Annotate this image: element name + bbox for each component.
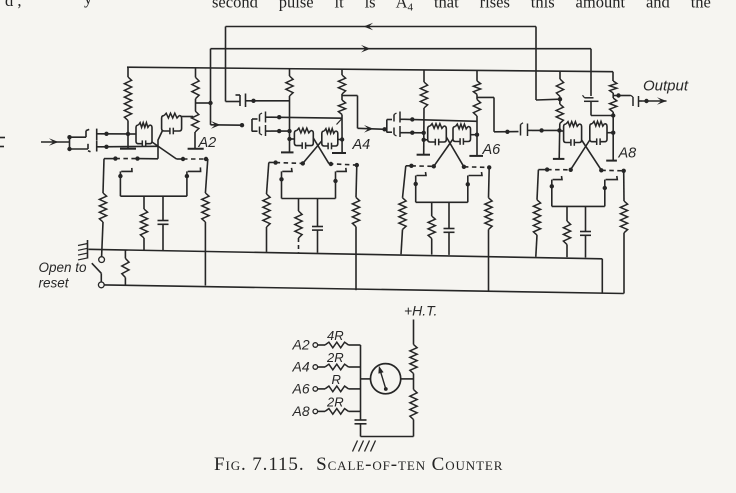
junction: A2 right grid dash end <box>204 157 208 161</box>
wire: A8 cross-couple left-box to right grid <box>582 140 602 170</box>
triode anode bar: A8 right <box>606 160 617 162</box>
capacitor: input steering bottom <box>88 141 101 152</box>
svg-text:d ,: d , <box>5 0 22 10</box>
wire: rail2 cap to A8 right anode <box>591 115 613 117</box>
junction: A8 right cathode <box>603 186 607 190</box>
svg-text:A2: A2 <box>292 337 310 353</box>
wire: A8 left anode lead <box>558 123 561 158</box>
junction: input split bottom <box>67 147 71 151</box>
junction: A4 right cathode <box>333 179 337 183</box>
capacitor: A6 steering bottom <box>387 126 405 137</box>
label: A2 <box>198 135 217 151</box>
junction: rail2 cap output <box>611 113 615 117</box>
svg-text:4R: 4R <box>327 328 344 343</box>
wire: A8 left box stub <box>559 130 563 132</box>
junction: A6 left box stub <box>422 138 426 142</box>
junction: A4 left anode / bottom steering <box>287 129 291 133</box>
svg-text:A8: A8 <box>618 146 637 162</box>
terminal: meter input A4 <box>313 365 318 370</box>
junction: input bottom cap output <box>104 145 108 149</box>
junction: A4 input <box>240 123 244 127</box>
junction: A2 tap on feedback drop <box>208 101 212 105</box>
junction: A4 steering bottom <box>277 129 281 133</box>
grid line: A4 right triode <box>329 164 357 165</box>
cathode: A4 left triode <box>282 168 293 199</box>
junction: A6 left grid dash start <box>409 164 413 168</box>
wire: A4 left box stub <box>290 138 295 140</box>
junction: A6 left grid dash end <box>432 164 436 168</box>
wire: input top cap to A2 left anode <box>101 133 128 135</box>
junction: A4 left grid dash end <box>301 161 305 165</box>
switch: blade <box>92 263 102 273</box>
resistor: A2 left grid leak <box>99 159 106 257</box>
wire: A2 cross-couple right-box to left grid <box>158 131 163 159</box>
coupling box: A2 left RC (R parallel C) <box>136 123 152 147</box>
wire: rail A right end drop to rail B <box>601 259 603 293</box>
junction: A2 right grid dash start <box>181 157 185 161</box>
wire: A4 right anode lead <box>341 115 343 154</box>
wire: A4 cathode bus <box>282 198 336 200</box>
resistor: A6 left grid leak <box>399 166 406 255</box>
cathode: A8 right triode <box>605 176 618 206</box>
svg-text:Fig. 7.115. Scale-of-ten Count: Fig. 7.115. Scale-of-ten Counter <box>214 454 503 475</box>
wire: feedback rail2 left drop <box>210 49 212 125</box>
resistor: A2 cathode bias <box>140 196 147 250</box>
cathode: A6 left triode <box>416 172 426 202</box>
grid line: A6 left triode <box>406 165 434 168</box>
resistor: A8 right grid leak <box>620 171 627 294</box>
resistor: meter series lower <box>410 390 417 437</box>
svg-text:Open to: Open to <box>39 260 88 275</box>
wire: cap to A8 left anode <box>532 129 559 131</box>
wire: A6 cathode bus <box>416 201 468 203</box>
svg-text:A6: A6 <box>482 142 502 158</box>
wire: summing bus <box>360 345 362 420</box>
wire: A8 right anode lead <box>612 112 614 161</box>
wire: A2 cross-couple left-box to right grid <box>152 142 177 159</box>
junction: A4 left box stub <box>287 137 291 141</box>
wire: A8 cathode bus <box>552 205 605 207</box>
cathode: A2 left triode <box>120 168 132 196</box>
wire: input top branch <box>70 136 87 138</box>
junction: A4 right box stub <box>340 137 344 141</box>
wire: grid-bias rail (rail B) <box>105 285 624 294</box>
text: cropped body text at top <box>5 0 711 14</box>
junction: A4 right grid dash end <box>355 163 359 167</box>
junction: A6 right grid dash end <box>487 165 491 169</box>
triode anode bar: A6 left <box>417 154 430 156</box>
capacitor: A8 cathode bypass <box>580 206 591 257</box>
grid line: A6 right triode <box>464 166 489 169</box>
junction: A4 right grid dash start <box>329 162 333 166</box>
arrowhead on feedback rail 1 (left) <box>364 23 374 31</box>
wire: A6 cross-couple right-box to left grid <box>434 139 453 166</box>
mark: page-edge artifact <box>0 138 5 147</box>
wire: A4-A6 coupling with arrow <box>358 125 385 133</box>
junction: A6 right cathode <box>466 182 470 186</box>
capacitor: feedback rail2 to A8 right anode <box>583 95 599 115</box>
switch: lower contact <box>98 282 104 288</box>
wire: feedback rail1 right drop <box>535 27 537 101</box>
triode anode bar: A4 left <box>281 151 294 153</box>
junction: input split top <box>67 135 71 139</box>
coupling box: A4 right RC <box>322 129 338 150</box>
label: meter input A6 <box>292 381 310 397</box>
svg-text:A8: A8 <box>292 403 310 419</box>
coupling box: A6 right RC <box>453 124 471 145</box>
resistor: A4 right grid leak <box>352 165 359 290</box>
resistor: A2 right anode load lower <box>192 111 199 132</box>
wire: output lead with arrow <box>642 97 667 105</box>
wire: A6 steering bottom output to left anode <box>405 132 424 134</box>
wire: A8 right box stub <box>607 132 613 134</box>
svg-text:y: y <box>84 0 93 8</box>
svg-text:second pulse it is A4 that ris: second pulse it is A4 that rises this am… <box>212 0 711 14</box>
wire: A2 right anode lead <box>194 132 196 149</box>
junction: input top cap output <box>104 132 108 136</box>
resistor: A4 left grid leak <box>263 162 270 252</box>
label: 2R (A8) <box>326 395 344 410</box>
svg-text:A6: A6 <box>292 381 310 397</box>
wire: A8 cross-couple right-box to left grid <box>571 140 590 170</box>
svg-text:reset: reset <box>39 276 70 291</box>
junction: A8 left tap <box>558 97 562 101</box>
resistor: A4 left anode load <box>286 69 293 96</box>
resistor: A8 right anode load lower <box>610 98 617 112</box>
resistor: meter series upper <box>410 345 417 390</box>
resistor: A8 cathode bias <box>563 206 570 257</box>
resistor: 2R summing (A8) <box>318 409 361 415</box>
capacitor: A6 steering top <box>387 112 405 123</box>
coupling box: A4 left RC <box>294 128 313 149</box>
capacitor: output coupling <box>628 95 642 107</box>
capacitor: input steering top <box>86 129 101 141</box>
coupling box: A8 right RC <box>590 121 607 145</box>
ground: meter circuit <box>353 441 376 452</box>
wire: A6 right tap stub <box>477 94 494 99</box>
wire: HT lead <box>413 320 415 345</box>
meter M1 <box>371 364 401 394</box>
wire: A8 right tap segment <box>612 93 614 98</box>
wire: A6 input spur <box>386 120 388 133</box>
coupling box: A2 right RC (R parallel C) <box>162 113 182 134</box>
label: A6 <box>482 142 502 158</box>
resistor: A2 left anode load <box>124 67 131 120</box>
coupling box: A6 left RC <box>428 124 447 146</box>
junction: A8 left grid dash end <box>569 168 573 172</box>
label: A8 <box>618 146 637 162</box>
wire: A6-A8 coupling horizontal <box>494 131 519 133</box>
wire: A6-A8 coupling drop <box>493 97 495 131</box>
resistor: A2 right anode load upper <box>192 68 199 99</box>
svg-text:2R: 2R <box>326 350 344 365</box>
junction: A6 left cathode <box>414 182 418 186</box>
resistor: A6 right anode load upper <box>473 70 480 94</box>
junction: A8 right grid dash start <box>599 168 603 172</box>
junction: A6 steering bottom <box>410 131 414 135</box>
junction: A2 left anode / input <box>126 132 130 136</box>
wire: meter bottom <box>361 436 414 438</box>
svg-text:A4: A4 <box>292 359 310 375</box>
ground: left chassis ground at rail A <box>78 240 88 260</box>
junction: A6-A8 cap output <box>539 128 543 132</box>
triode anode bar: A6 right <box>469 155 483 157</box>
capacitor: A6-A8 coupling <box>521 123 533 136</box>
junction: A6 right grid dash start <box>462 165 466 169</box>
wire: A4 left anode lead <box>289 96 291 152</box>
resistor: R summing <box>318 386 361 392</box>
capacitor: A4 steering top <box>252 112 271 123</box>
wire: rail1 to A8 left tap <box>536 98 560 101</box>
capacitor: feedback rail1 to A4 left anode <box>226 94 250 108</box>
junction: A8 right grid dash end <box>622 169 626 173</box>
capacitor: A4 steering bottom <box>252 125 271 136</box>
wire: A2 right box to right anode <box>182 116 194 118</box>
triode anode bar: A2 left <box>120 148 136 150</box>
wire: A4 right tap stub <box>342 94 358 100</box>
svg-text:A4: A4 <box>352 137 371 153</box>
wire: A4 steering bottom output to left anode <box>271 130 290 132</box>
cathode: A4 right triode <box>336 168 347 199</box>
triode anode bar: A2 right <box>188 148 204 150</box>
junction: A6 left anode / bottom steering <box>422 131 426 135</box>
wire: summing bus to meter <box>361 378 371 380</box>
resistor: A6 cathode bias <box>428 202 435 254</box>
svg-text:R: R <box>332 372 341 387</box>
triode anode bar: A8 left <box>553 158 565 160</box>
resistor: 4R summing <box>318 342 361 348</box>
junction: A2 left cathode <box>118 174 122 178</box>
resistor: A8 left anode load lower <box>556 104 563 123</box>
wire: A8 output tap <box>613 95 628 97</box>
terminal: meter input A8 <box>313 409 318 414</box>
label: +H.T. <box>404 303 437 319</box>
junction: A4 left cathode <box>279 177 283 181</box>
capacitor: A6 cathode bypass <box>444 202 455 255</box>
junction: A8 left grid dash start <box>545 167 549 171</box>
wire: A2 left box stub <box>128 133 136 135</box>
junction: output <box>644 99 648 103</box>
input arrow <box>41 138 70 146</box>
svg-text:A2: A2 <box>198 135 217 151</box>
wire: A4 steering top output to right anode <box>271 117 342 118</box>
terminal: meter input A2 <box>313 343 318 348</box>
wire: A6 left box stub <box>424 139 428 141</box>
caption: Fig. 7.115. Scale-of-ten Counter <box>214 454 503 475</box>
junction: after rail1 cap <box>251 99 255 103</box>
label: Open to reset <box>39 260 88 291</box>
label: A4 <box>352 137 371 153</box>
wire: cap to A4 left anode <box>249 100 290 102</box>
coupling box: A8 left RC <box>564 122 582 146</box>
wire: A6 steering top output to right anode <box>405 119 477 121</box>
arrowhead on feedback rail 2 (right) <box>361 45 371 53</box>
junction: A8 right box stub <box>611 131 615 135</box>
cathode: A8 left triode <box>552 176 562 206</box>
triode anode bar: A4 right <box>332 152 346 154</box>
wire: cathode return rail (rail A) <box>89 249 603 258</box>
wire: A2 left anode lead <box>127 121 129 149</box>
svg-text:+H.T.: +H.T. <box>404 303 437 319</box>
resistor: A4 cathode bias <box>295 199 302 253</box>
wire: input bottom cap to A2 left grid node <box>101 145 158 148</box>
wire: meter to HT divider <box>401 378 414 380</box>
meter needle <box>378 366 387 391</box>
cathode: A2 right triode <box>187 167 201 196</box>
wire: A6 left anode lead <box>423 108 425 155</box>
resistor: A6 right grid leak <box>485 167 492 291</box>
resistor: A2 right grid leak <box>202 159 209 286</box>
svg-text:2R: 2R <box>326 395 344 410</box>
wire: A4 cross-couple left-box to right grid <box>313 138 329 164</box>
junction: A6 steering top <box>410 117 414 121</box>
wire: A2 right tap <box>195 99 197 111</box>
junction: output tap <box>616 93 620 97</box>
junction: A8 left cathode <box>550 184 554 188</box>
junction: A6 input <box>382 127 386 131</box>
wire: input bottom branch <box>70 148 89 150</box>
resistor: A4 right anode load lower <box>338 100 345 115</box>
junction: A2 right cathode <box>185 174 189 178</box>
resistor: bias divider A2 region (rail A to rail B) <box>122 250 129 285</box>
terminal: meter input A6 <box>313 387 318 392</box>
label: Output <box>643 78 689 95</box>
cathode: A6 right triode <box>468 172 482 202</box>
switch: open-to-reset upper contact <box>99 257 105 263</box>
wire: A4 input spur <box>251 119 253 132</box>
wire: A4-A6 coupling drop <box>357 96 359 129</box>
junction: A2 left grid dash start <box>113 156 117 160</box>
wire: feedback rail 2 (A2/A8 coupling) <box>211 48 592 50</box>
wire: A2 cathode bus <box>120 195 186 197</box>
resistor: A8 right anode load upper <box>610 72 617 93</box>
wire: feedback rail 1 (A8 to A4) <box>226 26 537 28</box>
junction: A8 left anode / input cap <box>557 128 561 132</box>
wire: A2-A4 coupling with arrow <box>211 121 243 129</box>
wire: feedback rail1 left drop <box>225 27 227 102</box>
wire: HT supply top rail <box>127 67 613 72</box>
label: meter input A8 <box>292 403 310 419</box>
wire: A4 right box corner link <box>337 119 343 125</box>
junction: A6-A8 cap input <box>505 130 509 134</box>
resistor: A4 right anode load upper <box>338 69 345 94</box>
label: meter input A2 <box>292 337 310 353</box>
junction: A4 left grid dash start <box>273 160 277 164</box>
wire: A6 right anode lead <box>476 116 478 156</box>
wire: A4 cross-couple right-box to left grid <box>303 141 322 164</box>
capacitor: A4 cathode bypass <box>312 199 323 253</box>
label: 2R (A4) <box>326 350 344 365</box>
wire: blade to lower contact <box>100 273 102 282</box>
wire: A6 right box stub <box>471 134 478 136</box>
grid line: A8 left triode <box>538 169 570 171</box>
wire: A2 tap stub to coupling <box>195 102 210 104</box>
grid line: A2 right triode <box>177 158 208 160</box>
resistor: A6 right anode load lower <box>473 99 480 116</box>
capacitor: meter smoothing <box>355 420 367 437</box>
junction: A4 steering top <box>277 115 281 119</box>
wire: A6 cross-couple left-box to right grid <box>446 137 464 167</box>
capacitor: A2 cathode bypass <box>158 196 169 250</box>
resistor: A8 left grid leak <box>533 170 540 257</box>
wire: A8 left tap segment <box>559 97 561 105</box>
wire: feedback rail2 right drop <box>590 49 592 96</box>
wire: input splitter bar <box>69 137 71 149</box>
resistor: A6 left anode load <box>420 70 427 108</box>
resistor: 2R summing (A4) <box>318 364 361 370</box>
grid line: A2 left triode <box>104 158 158 160</box>
label: meter input A4 <box>292 359 310 375</box>
grid line: A8 right triode <box>601 169 623 172</box>
label: 4R <box>327 328 344 343</box>
grid line: A4 left triode <box>269 162 303 163</box>
resistor: A8 left anode load upper <box>556 71 563 96</box>
label: R <box>332 372 341 387</box>
svg-text:Output: Output <box>643 78 689 95</box>
junction: A2 left grid dash end <box>135 156 139 160</box>
junction: A6 right box stub <box>475 133 479 137</box>
wire: A4 right box stub <box>338 139 342 141</box>
